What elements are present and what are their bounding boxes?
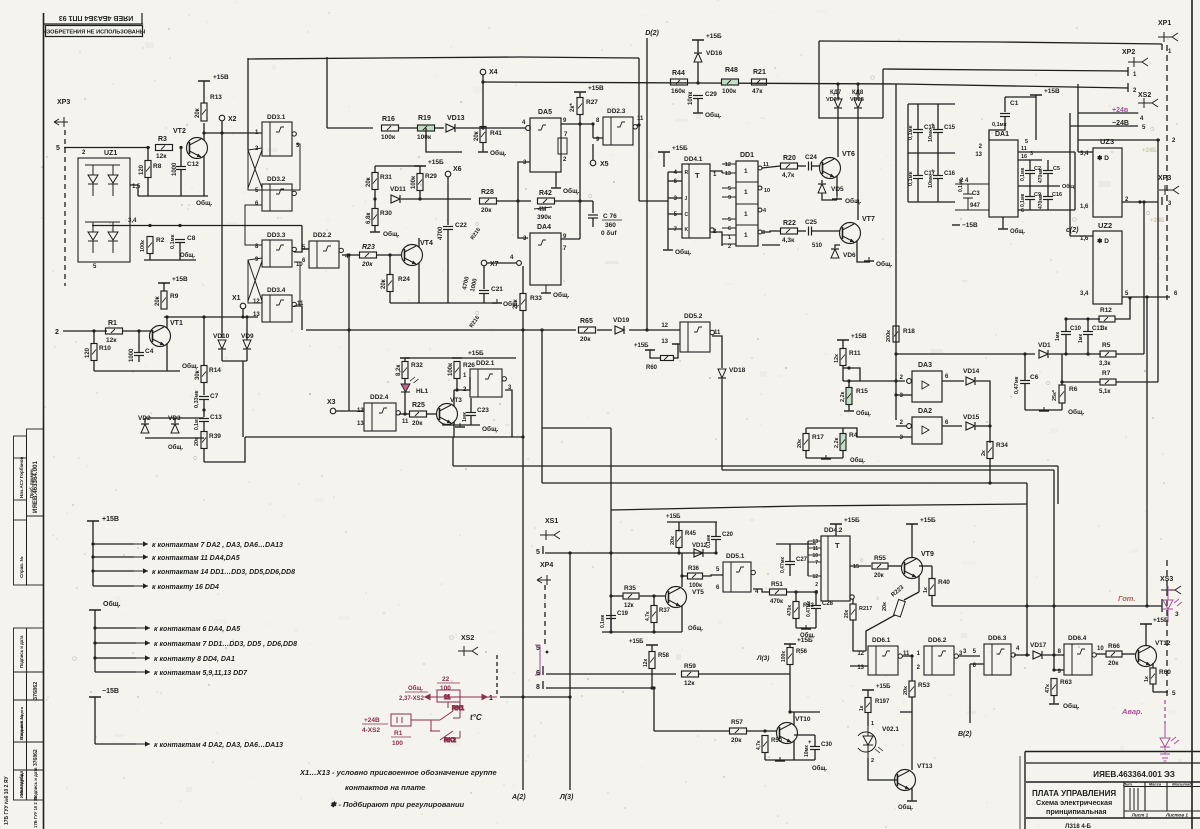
svg-text:к контакту 16 DD4: к контакту 16 DD4 (152, 584, 219, 591)
+15B rail VT12 (1140, 623, 1152, 625)
svg-text:+15Б: +15Б (428, 159, 444, 166)
svg-text:XP3: XP3 (1158, 175, 1171, 182)
junction x896 y354 (894, 352, 897, 355)
svg-text:R24: R24 (398, 276, 410, 283)
C1 loop bottom (989, 117, 1005, 140)
svg-text:376862: 376862 (33, 749, 39, 766)
R36 out wire (703, 575, 724, 576)
svg-text:0,47мк: 0,47мк (1014, 376, 1020, 394)
C76 bottom (592, 219, 594, 228)
svg-text:3: 3 (1175, 611, 1179, 618)
svg-text:к контактам 14 DD1…DD3, DD5,D: к контактам 14 DD1…DD3, DD5,DD6,DD8 (152, 569, 295, 576)
DA1 right wire top (1018, 151, 1075, 153)
DD6.3 pin6 wire (970, 663, 984, 665)
transistor VT9 (902, 558, 923, 579)
HL1 bottom wire (404, 392, 406, 414)
magenta bracket XS2 pins (535, 645, 540, 675)
tree3 arrow (136, 741, 150, 746)
svg-text:5: 5 (728, 186, 731, 192)
XP4 pin6 tick (542, 666, 544, 675)
bus y84 from X4 to XP2 pin2 (483, 82, 1128, 88)
svg-text:20к: 20к (731, 737, 742, 744)
test point X6 (445, 171, 451, 177)
ground DA1 (998, 225, 1008, 229)
svg-text:R27: R27 (586, 99, 598, 106)
svg-text:13: 13 (661, 339, 668, 345)
DD4.2 out wire (850, 565, 871, 567)
resistor R48 (selected, green) (722, 79, 739, 85)
XS3 pin symbol (1161, 585, 1181, 595)
X1 stub (242, 309, 244, 317)
bus mid y483 (542, 482, 1027, 484)
C76 stub (580, 200, 593, 202)
junction pin1 x523 (521, 695, 524, 698)
svg-text:1: 1 (728, 235, 731, 241)
diode VD12 (694, 549, 703, 557)
wire VD2 top (144, 418, 146, 423)
DA5 hysteresis glyph (538, 125, 546, 130)
svg-text:Общ.: Общ. (705, 111, 722, 119)
svg-text:Общ.: Общ. (850, 457, 865, 464)
DD1 out4 circle (758, 230, 762, 234)
resistor R34 (987, 442, 993, 459)
svg-text:ХS1: ХS1 (545, 518, 558, 525)
svg-text:X7: X7 (490, 261, 499, 268)
svg-text:R66: R66 (1108, 643, 1120, 650)
R53 top wire (911, 656, 913, 681)
svg-text:4700: 4700 (438, 226, 444, 240)
wire gnd row y196 (138, 195, 208, 197)
VT3 collector up (453, 390, 455, 406)
svg-text:DD4.2: DD4.2 (824, 527, 843, 534)
R56 bottom wire (789, 665, 791, 713)
gnd row VT3 (442, 424, 480, 426)
R22 input wire (762, 231, 781, 232)
tree2 branch wire 3 (95, 657, 136, 659)
svg-text:8: 8 (596, 118, 600, 124)
svg-text:Общ.: Общ. (898, 804, 913, 811)
XP2 pin1 tick (1127, 67, 1129, 76)
svg-text:3: 3 (523, 160, 527, 166)
tree1 branch wire 2 (93, 556, 134, 558)
svg-text:С16: С16 (944, 171, 956, 177)
DD6.3 out wire (1014, 654, 1030, 656)
junction R42-C76 (578, 199, 581, 202)
svg-text:2: 2 (900, 420, 904, 426)
junction C12 top (179, 146, 182, 149)
C27 feed wire (776, 543, 816, 545)
VD row to bus (242, 361, 244, 437)
diode VD18 (718, 369, 726, 378)
svg-text:470мк: 470мк (1038, 168, 1044, 183)
C28 bottom (815, 609, 817, 628)
vline DD3.2 pin6 to DD3.3 pin8 (245, 205, 262, 245)
+15B rail R197 (862, 689, 874, 691)
svg-text:1: 1 (917, 651, 921, 657)
svg-text:С 76: С 76 (603, 213, 617, 220)
tree2 trunk wire (94, 610, 96, 672)
svg-text:VD19: VD19 (613, 317, 630, 324)
svg-text:17Б ГУУ №6 10 2 ЯУ: 17Б ГУУ №6 10 2 ЯУ (4, 776, 10, 825)
svg-text:R63: R63 (1060, 679, 1072, 686)
svg-text:◌: ◌ (72, 654, 77, 663)
svg-text:+15Б: +15Б (672, 145, 688, 152)
DD6.1 pin13 wire (850, 665, 868, 667)
svg-text:2: 2 (1172, 138, 1176, 144)
svg-text:10мк: 10мк (928, 175, 934, 188)
vline x1144 (1143, 202, 1145, 354)
sensor RK2 contact (430, 731, 460, 744)
tree1 trunk wire (92, 521, 94, 586)
svg-text:R8: R8 (153, 163, 162, 170)
svg-text:12: 12 (253, 299, 260, 305)
svg-text:DA4: DA4 (537, 224, 551, 231)
+15B rail R27 (574, 91, 586, 93)
R34 vline bottom (989, 459, 991, 484)
sensor R1 value (391, 730, 411, 747)
-15B tick DA1 (952, 224, 960, 226)
transistor VT6 (820, 158, 841, 179)
UZ1 output wire 1,5 (130, 185, 138, 196)
cap bank bottom wire (908, 201, 955, 203)
X7 row wire (487, 262, 516, 264)
DD4.1 out circle (710, 228, 714, 232)
capacitor C30 (810, 747, 820, 750)
DA3 amp glyph (922, 381, 929, 389)
VD18 to bus y470 (721, 379, 723, 470)
resistor R8 (145, 161, 151, 178)
resistor R24 (387, 275, 393, 292)
R5 out wire (1116, 353, 1144, 355)
R33 bottom wire (522, 311, 524, 331)
+15B rail DD4.2 (830, 523, 842, 525)
svg-text:11: 11 (637, 116, 644, 122)
C16 top (937, 153, 939, 175)
junction Got x1147 (1145, 604, 1148, 607)
svg-text:R216: R216 (470, 227, 482, 241)
VD17 out wire (1043, 654, 1064, 656)
svg-text:1: 1 (463, 373, 467, 379)
XS2 pin symbol (458, 646, 478, 656)
vline R27-DA4 mid (579, 124, 581, 201)
svg-text:VD28: VD28 (850, 97, 864, 103)
svg-text:R2: R2 (156, 237, 165, 244)
DA5 side resistor box (558, 138, 567, 154)
wire C4 top (138, 331, 140, 352)
diode VD3 (171, 424, 179, 433)
R60c out wire (1153, 691, 1168, 693)
R7 out wire (1116, 381, 1158, 383)
gnd row VT4 (390, 302, 497, 304)
R40 bottom wire (931, 596, 933, 607)
R22-C25 wire (798, 230, 807, 232)
svg-text:1: 1 (1133, 72, 1137, 78)
svg-text:20к: 20к (670, 536, 676, 545)
wire R1 to VT1 base (123, 330, 152, 332)
DD6.1 out wire (902, 655, 912, 657)
svg-text:ИЗОБРЕТЕНИЯ НЕ ИСПОЛЬЗОВАНЫ: ИЗОБРЕТЕНИЯ НЕ ИСПОЛЬЗОВАНЫ (43, 30, 146, 36)
svg-text:VD10: VD10 (213, 333, 230, 340)
svg-text:С10: С10 (1070, 326, 1082, 332)
C20 bottom wire (715, 540, 717, 553)
junction Got x1054 (1052, 604, 1055, 607)
svg-text:120: 120 (139, 164, 145, 175)
bus y510 (611, 504, 1027, 510)
svg-text:VD15: VD15 (963, 414, 980, 421)
VT1 collector wire (166, 317, 168, 328)
vline x1058 (1057, 466, 1059, 504)
resistor R5 (1100, 351, 1116, 357)
resistor R6 (1059, 385, 1065, 403)
svg-text:0 δuf: 0 δuf (601, 230, 617, 237)
R58 bottom wire (651, 669, 653, 689)
svg-text:3,4: 3,4 (1080, 291, 1089, 297)
svg-text:+15Б: +15Б (876, 684, 891, 690)
svg-text:3: 3 (674, 196, 678, 202)
svg-text:0,1мк: 0,1мк (1020, 193, 1026, 207)
resistor R19 (selected, green) (418, 125, 435, 131)
svg-text:XP2: XP2 (1122, 49, 1135, 56)
junction R2 top (148, 224, 151, 227)
test point X5 (590, 160, 596, 166)
svg-text:12: 12 (357, 408, 364, 414)
svg-text:947: 947 (970, 203, 981, 209)
sensor R1 box (391, 714, 411, 726)
svg-text:C: C (685, 212, 689, 218)
svg-text:X1…X13 - условно присвоенное о: X1…X13 - условно присвоенное обозначение… (299, 768, 497, 777)
svg-text:20к: 20к (513, 299, 519, 309)
svg-text:6: 6 (302, 258, 306, 264)
junction R26-VT3 (455, 388, 458, 391)
svg-text:DA2: DA2 (918, 408, 932, 415)
junction C28 top (814, 590, 817, 593)
DD3.4 output wire (294, 306, 302, 330)
transistor VT12 (1136, 646, 1157, 667)
svg-text:VD13: VD13 (447, 115, 465, 122)
C8 bottom wire (179, 243, 181, 260)
resistor R7 (1100, 379, 1116, 385)
tree1 junction 1 (91, 542, 94, 545)
+15B rail R58 (646, 644, 658, 646)
svg-text:R48: R48 (725, 67, 738, 74)
resistor R22 (781, 228, 798, 234)
svg-text:15: 15 (853, 564, 859, 570)
cap bank mid wire (908, 152, 955, 154)
transistor VT1 (150, 326, 171, 347)
svg-text:R60: R60 (1159, 669, 1171, 676)
wire left input row y128 (327, 127, 373, 129)
R29 top wire (419, 166, 421, 174)
comparator DA3 box (912, 371, 942, 402)
svg-text:4: 4 (1016, 646, 1020, 652)
wire +24v (1078, 112, 1138, 114)
svg-text:1000: 1000 (129, 348, 135, 362)
R20-C24 wire (798, 165, 807, 167)
svg-text:Лит.: Лит. (1122, 782, 1133, 787)
svg-text:200к: 200к (886, 330, 892, 342)
svg-text:10: 10 (764, 188, 770, 194)
junction R57 feed (652, 686, 655, 689)
vline X2-R14 (203, 317, 205, 361)
wire R39 to bus (204, 437, 245, 462)
XP4 pin6 wire (546, 673, 676, 675)
bus mid y466 (453, 465, 1058, 467)
tree1 branch wire 4 (93, 585, 134, 587)
svg-text:ЛЗ18 4-Б: ЛЗ18 4-Б (1065, 824, 1092, 829)
svg-text:R65: R65 (580, 318, 593, 325)
svg-text:С6: С6 (1030, 374, 1039, 381)
junction R10 top (92, 329, 95, 332)
bus y330 right part (597, 329, 612, 331)
junction DD6.4 in (1052, 653, 1055, 656)
bus y330 to DD5.2 (629, 329, 680, 331)
svg-text:DD2.3: DD2.3 (607, 108, 626, 115)
transistor VT13 (895, 770, 916, 791)
VT7 down to R18 (895, 325, 897, 343)
R15 bottom (848, 405, 850, 411)
C29 bottom wire (697, 99, 699, 112)
svg-text:Общ.: Общ. (1010, 228, 1025, 235)
R17R4 top row (806, 427, 843, 429)
svg-text:R21: R21 (753, 69, 766, 76)
svg-text:1: 1 (744, 168, 748, 175)
R43 top (795, 592, 797, 602)
C6 top (1024, 354, 1026, 380)
svg-text:◌: ◌ (1146, 210, 1150, 217)
svg-text:R51: R51 (771, 581, 783, 588)
R51 out wire (787, 591, 817, 593)
VD15 out wire (976, 425, 990, 427)
resistor R1 (106, 328, 123, 334)
svg-text:5: 5 (536, 645, 540, 652)
svg-text:+15Б: +15Б (666, 514, 681, 520)
svg-text:КД7: КД7 (830, 90, 842, 96)
C21 bottom wire (483, 294, 485, 303)
svg-text:HL1: HL1 (416, 388, 429, 395)
resistor R18 (893, 326, 899, 342)
junction X2 collector (220, 131, 223, 134)
resistor R45 (676, 531, 682, 548)
svg-text:12к: 12к (156, 153, 167, 160)
svg-text:360: 360 (605, 222, 616, 229)
svg-text:100к: 100к (781, 651, 787, 662)
junction R53 top (910, 654, 913, 657)
svg-text:Общ.: Общ. (845, 197, 862, 205)
R15 top link (848, 381, 850, 388)
svg-text:2,3⁦7-ХS2: 2,3⁦7-ХS2 (399, 696, 425, 702)
svg-text:X6: X6 (453, 166, 462, 173)
svg-text:+15В: +15В (213, 74, 229, 81)
svg-text:17Б ГУУ 10 2 ЯУ: 17Б ГУУ 10 2 ЯУ (33, 795, 38, 828)
test point X2 (219, 115, 225, 121)
svg-text:R18: R18 (903, 328, 915, 335)
XS1 pin5 wire (545, 552, 716, 554)
DD4.1 left pin 3 stub (668, 197, 682, 199)
junction y84 x838 (836, 82, 839, 85)
svg-text:VT6: VT6 (842, 151, 855, 158)
junction x611 cross (609, 551, 612, 554)
svg-text:13: 13 (725, 171, 731, 177)
DD4.2 pin 13 stub (808, 540, 821, 542)
junction HL1-R25 (403, 412, 406, 415)
DA5 pin2 gnd wire (555, 172, 557, 186)
svg-text:✽ D: ✽ D (1097, 237, 1109, 245)
svg-text:С29: С29 (705, 91, 717, 98)
DD1 cell divider 3 (736, 224, 758, 226)
C11 vline top (1087, 319, 1089, 331)
ground VT13 (907, 797, 917, 801)
VD5 gnd link (822, 193, 837, 200)
vline x1158 (1157, 140, 1159, 382)
R17 bottom (805, 451, 807, 459)
C27 top (789, 544, 791, 561)
bus junction x647 y330 (645, 328, 648, 331)
C30 bottom (814, 750, 816, 760)
svg-text:✽ - Подбирают при регулировани: ✽ - Подбирают при регулировании (330, 800, 465, 809)
sensor RK1 contact (440, 702, 465, 720)
resistor R41 (480, 127, 486, 143)
svg-text:0,1мк: 0,1мк (170, 234, 176, 249)
svg-text:1,6: 1,6 (1080, 204, 1089, 210)
DD4.1 out2 to DD1 (712, 232, 722, 246)
svg-text:◌: ◌ (449, 633, 454, 642)
svg-text:R44: R44 (672, 70, 685, 77)
vline x1027 (1026, 483, 1028, 655)
svg-text:+15В: +15В (172, 276, 188, 283)
vline x611 (610, 510, 612, 632)
C1 loop top (1005, 96, 1036, 98)
DD4.2 pin12 stub (808, 575, 821, 577)
LED HL1 (401, 377, 419, 392)
svg-text:13: 13 (975, 152, 982, 158)
R58 top wire (651, 645, 653, 652)
VD16 top wire (697, 40, 699, 52)
resistor R11 (840, 349, 846, 366)
svg-text:6: 6 (536, 670, 540, 677)
svg-text:100: 100 (440, 685, 451, 692)
C2C5 mid wire (1018, 185, 1060, 187)
svg-text:ХР4: ХР4 (540, 562, 553, 569)
svg-text:С30: С30 (821, 742, 833, 748)
DD4.1 pin divider (688, 164, 690, 238)
R25-VT3 wire (427, 413, 438, 415)
capacitor C10 (1061, 332, 1071, 335)
R57 left wire (654, 730, 730, 732)
transistor VT6b VT5 (666, 587, 687, 608)
svg-text:6: 6 (945, 374, 949, 380)
resistor R56 (787, 648, 793, 665)
svg-text:100к: 100к (448, 363, 454, 376)
capacitor C24 (809, 162, 812, 171)
junction R8 top (146, 146, 149, 149)
VT7 emitter to gnd (857, 248, 870, 262)
svg-text:С19: С19 (617, 611, 629, 617)
capacitor C3 cluster (955, 184, 989, 210)
svg-text:12: 12 (812, 574, 818, 580)
ground DD4.1 (663, 246, 673, 250)
svg-text:С8: С8 (187, 235, 196, 242)
VD7 top wire (837, 84, 839, 99)
wire VD13-DA5 (456, 127, 526, 129)
junction VD9 top (245, 315, 248, 318)
svg-text:VT2: VT2 (173, 128, 186, 135)
svg-text:◌: ◌ (870, 73, 875, 82)
wire R19 bottom tap (425, 128, 427, 143)
-15B rail tick tree3 (89, 696, 101, 698)
svg-text:12к: 12к (834, 354, 840, 363)
svg-text:+15В: +15В (1044, 88, 1060, 95)
R59 out wire (699, 673, 791, 675)
